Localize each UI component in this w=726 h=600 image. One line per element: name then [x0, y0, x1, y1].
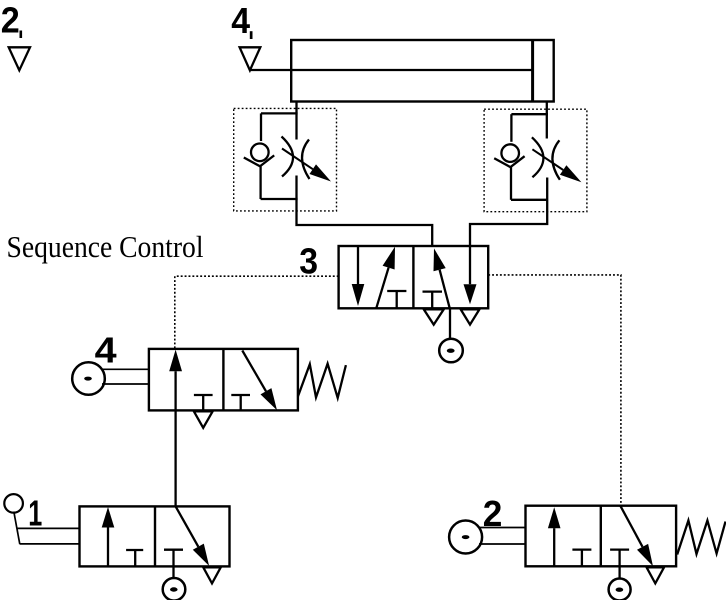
valve V4 left box up arrow with supply wire — [169, 350, 182, 507]
valve V4 right box blocked port T — [231, 395, 250, 410]
valve V2 left box blocked port T — [572, 550, 591, 567]
valve V3 left box blocked port T — [387, 291, 406, 308]
pilot line 12 from valve 4 to valve 3 left — [175, 276, 339, 349]
check valve of FC1 (left) — [244, 113, 298, 199]
valve V3 right box up arrow — [434, 248, 450, 307]
valve V1 left box up arrow — [102, 507, 115, 566]
valve V3 exhaust 3 triangle — [461, 309, 480, 324]
compressed air source under valve 2 — [609, 579, 631, 600]
compressed air source under valve 3 — [439, 339, 463, 363]
valve V1 lever actuator — [4, 494, 79, 544]
valve V3 right box blocked port T — [423, 292, 443, 309]
valve V2 right box crossed arrow — [620, 506, 653, 567]
valve V2 right box blocked port T with supply stem — [610, 550, 629, 579]
valve V1 right box crossed arrow — [176, 506, 210, 566]
valve V4 body — [149, 349, 298, 411]
valve V3 supply line — [449, 308, 451, 339]
adjust arrow of FC2 (right) — [532, 149, 581, 182]
valve V1 exhaust triangle — [203, 567, 220, 583]
piston rod — [250, 69, 533, 71]
cylinder A — [291, 40, 554, 102]
valve V2 roller actuator — [449, 521, 525, 554]
valve V3 exhaust 5 triangle — [424, 309, 444, 324]
valve V2 exhaust triangle — [647, 567, 664, 583]
valve V2 body — [526, 506, 677, 567]
valve V3 body — [339, 246, 489, 308]
throttle of FC2 (right) — [532, 137, 560, 180]
node 4 marker label — [231, 0, 252, 41]
valve V3 left box crossed arrow — [376, 247, 395, 308]
svg-text:3: 3 — [299, 241, 318, 282]
wire FC1 to valve 3 port 4 — [297, 176, 433, 248]
valve V2 left box up arrow — [548, 507, 561, 566]
wire FC2 to valve 3 port 2 — [470, 178, 547, 248]
valve V4 right box crossed arrow — [242, 351, 277, 411]
check valve of FC2 (right) — [494, 114, 548, 200]
svg-text:2: 2 — [1, 0, 20, 41]
valve V3 right box down arrow — [464, 246, 477, 304]
valve V1 right box blocked port T with supply stem — [164, 550, 183, 579]
valve V1 body — [80, 506, 230, 566]
flow control FC1 (left) enclosure — [234, 108, 337, 210]
wire cylinder left port — [295, 102, 297, 140]
svg-text:4: 4 — [231, 0, 250, 41]
svg-text:1: 1 — [28, 493, 42, 534]
throttle of FC1 (left) — [282, 137, 310, 180]
flow control FC2 (right) enclosure — [484, 109, 587, 212]
valve V4 return spring — [298, 364, 346, 398]
wire cylinder right port — [546, 102, 548, 139]
node 2 marker label — [1, 0, 22, 41]
valve V4 exhaust triangle — [194, 411, 213, 427]
adjust arrow of FC1 (left) — [282, 149, 331, 182]
valve V3 left box down arrow — [352, 246, 365, 306]
node 4 marker triangle — [240, 47, 261, 70]
valve V2 return spring — [677, 521, 725, 555]
svg-text:Sequence Control: Sequence Control — [7, 229, 204, 264]
valve V4 left box blocked port T — [194, 395, 213, 410]
node 2 marker triangle — [9, 47, 30, 70]
valve V1 left box blocked port T — [126, 550, 143, 566]
pilot line 14 from valve 2 to valve 3 right — [488, 275, 621, 506]
compressed air source under valve 1 — [163, 578, 186, 600]
valve V4 roller actuator — [72, 362, 149, 395]
